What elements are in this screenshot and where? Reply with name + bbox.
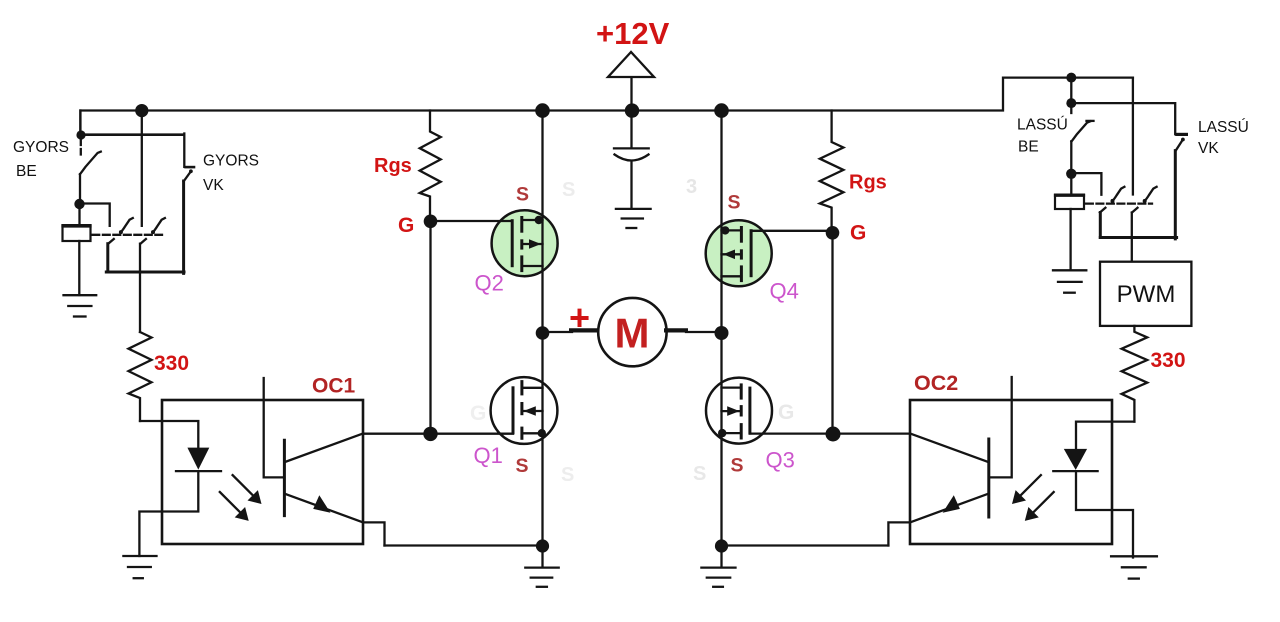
wire Q2 drain/source vertical bbox=[541, 111, 543, 334]
node dot bus/GYORS bbox=[135, 104, 148, 117]
node dot motor right bbox=[715, 326, 729, 340]
svg-text:LASSÚ: LASSÚ bbox=[1017, 117, 1068, 134]
wire Q3 source to OC2 emitter bbox=[722, 544, 889, 546]
svg-text:GYORS: GYORS bbox=[13, 139, 69, 156]
switch LASSU BE bbox=[1071, 107, 1093, 170]
svg-text:G: G bbox=[850, 222, 866, 245]
svg-text:BE: BE bbox=[1018, 139, 1039, 156]
wire Q3 source down bbox=[720, 333, 722, 546]
node dot G left bbox=[424, 215, 438, 229]
+12V supply symbol bbox=[608, 52, 654, 111]
wire contact1 drop right tick bbox=[1100, 208, 1106, 213]
optocoupler OC2 box bbox=[910, 400, 1112, 544]
wire G-right junction down to Q3 gate junction bbox=[831, 233, 833, 434]
resistor 330 right bbox=[1122, 326, 1148, 422]
svg-text:3: 3 bbox=[686, 176, 697, 198]
wire LASSU top to BE dot bbox=[1070, 78, 1072, 100]
wire contact2 drop to 330 resistor bbox=[140, 239, 146, 332]
node dot bus/Q2 drain bbox=[535, 103, 550, 118]
node dot GYORS BE top bbox=[76, 130, 85, 139]
node dot Q1 gate junction bbox=[423, 427, 437, 441]
resistor Rgs left bbox=[420, 111, 441, 222]
svg-text:330: 330 bbox=[1151, 349, 1186, 372]
LED D1 in OC1 bbox=[139, 421, 221, 556]
svg-text:LASSÚ: LASSÚ bbox=[1198, 119, 1249, 136]
svg-text:+: + bbox=[569, 297, 590, 338]
ground below OC1 LED bbox=[123, 556, 156, 578]
MOSFET Q1 (N-channel) bbox=[363, 377, 557, 444]
wire LASSU VK feed horizontal bbox=[1071, 103, 1175, 134]
svg-text:S: S bbox=[728, 192, 741, 214]
svg-text:G: G bbox=[470, 402, 486, 425]
wire contact2 drop to PWM bbox=[1132, 208, 1138, 262]
resistor Rgs right bbox=[820, 111, 844, 228]
node dot bus/capacitor bbox=[625, 103, 639, 117]
svg-text:S: S bbox=[731, 455, 744, 477]
capacitor C1 bbox=[614, 111, 649, 209]
svg-text:PWM: PWM bbox=[1117, 281, 1176, 308]
contact 1 blade right bbox=[1111, 187, 1125, 203]
contact 2 blade bbox=[151, 218, 165, 234]
node dot G right bbox=[826, 226, 840, 240]
svg-text:Q2: Q2 bbox=[475, 271, 504, 296]
wire relay-left contact1 feed bbox=[80, 204, 110, 226]
wire contact2 feed right bbox=[1132, 78, 1134, 195]
wire Q1 source down bbox=[541, 333, 543, 546]
node dot Q3 gate junction bbox=[826, 427, 841, 442]
node dot LASSU top line bbox=[1066, 73, 1076, 83]
relay coil K2 bbox=[1054, 174, 1085, 209]
svg-text:BE: BE bbox=[16, 163, 37, 180]
svg-text:G: G bbox=[778, 401, 794, 424]
wire main +12V bus bbox=[80, 78, 1133, 131]
phototransistor OC2 bbox=[888, 377, 1011, 546]
svg-text:Rgs: Rgs bbox=[374, 155, 412, 177]
motor M bbox=[543, 298, 722, 366]
contact 1 blade (latch) bbox=[119, 218, 133, 234]
svg-text:OC2: OC2 bbox=[914, 371, 958, 395]
wire GYORS VK feed horizontal bbox=[81, 133, 184, 136]
wire relay-right contact1 feed bbox=[1071, 173, 1101, 195]
LED D2 in OC2 bbox=[1053, 422, 1134, 558]
svg-text:G: G bbox=[398, 214, 414, 237]
ground below relay-left bbox=[64, 295, 97, 316]
wire LASSU contact1 drop bbox=[1099, 213, 1102, 238]
wire GYORS BE feed (bus corner down) bbox=[79, 111, 81, 132]
svg-text:S: S bbox=[562, 179, 575, 201]
MOSFET Q4 (P-channel, green, mirrored) bbox=[706, 220, 833, 286]
ground below relay-right bbox=[1053, 270, 1086, 292]
relay-left actuation dashed link bbox=[92, 234, 162, 236]
svg-text:+12V: +12V bbox=[596, 16, 670, 51]
switch GYORS BE bbox=[80, 140, 101, 201]
wire relay-right coil to ground bbox=[1069, 209, 1071, 270]
svg-text:OC1: OC1 bbox=[312, 375, 356, 398]
svg-text:S: S bbox=[693, 463, 706, 485]
PWM block U3 bbox=[1100, 262, 1191, 326]
optocoupler OC1 box bbox=[162, 400, 363, 544]
wire GYORS VK return vertical bbox=[182, 181, 185, 273]
ground below Q1 bbox=[525, 546, 558, 587]
svg-text:M: M bbox=[615, 310, 650, 357]
svg-text:GYORS: GYORS bbox=[203, 153, 259, 170]
switch LASSU VK bbox=[1175, 134, 1188, 150]
MOSFET Q3 (N-channel, mirrored) bbox=[706, 378, 910, 444]
svg-text:330: 330 bbox=[154, 352, 189, 375]
switch GYORS VK bbox=[184, 134, 196, 182]
wire contact1 drop bbox=[108, 239, 114, 272]
svg-text:Rgs: Rgs bbox=[849, 172, 887, 194]
relay coil K1 bbox=[61, 204, 91, 241]
svg-text:S: S bbox=[561, 464, 574, 486]
node dot Q3 source bbox=[715, 539, 728, 552]
node dot relay-left coil top bbox=[74, 199, 84, 209]
svg-text:Q4: Q4 bbox=[770, 279, 799, 304]
svg-text:VK: VK bbox=[1198, 140, 1219, 157]
svg-text:VK: VK bbox=[203, 177, 224, 194]
wire relay-left coil to ground bbox=[78, 241, 80, 295]
MOSFET Q2 (P-channel, green) bbox=[431, 210, 558, 276]
ground below Q3 bbox=[701, 546, 735, 587]
svg-text:Q3: Q3 bbox=[766, 448, 795, 473]
ground below capacitor bbox=[616, 209, 651, 228]
node dot bus/Q4 drain bbox=[714, 103, 729, 118]
wire LASSU latch bottom bbox=[1100, 236, 1176, 239]
contact 2 blade right bbox=[1143, 187, 1157, 203]
wire LASSU VK return vertical bbox=[1174, 151, 1177, 239]
svg-text:S: S bbox=[516, 184, 529, 206]
phototransistor OC1 bbox=[264, 378, 385, 546]
light arrows OC1 bbox=[220, 475, 262, 521]
light arrows OC2 bbox=[1012, 475, 1054, 521]
wire G-left junction down to Q1 gate junction bbox=[429, 221, 431, 433]
wire contact2 feed from bus bbox=[141, 111, 143, 226]
resistor 330 left bbox=[129, 332, 152, 421]
svg-text:Q1: Q1 bbox=[474, 443, 503, 468]
svg-text:S: S bbox=[516, 455, 529, 477]
wire GYORS latch bottom bbox=[106, 271, 184, 274]
ground below OC2 LED bbox=[1111, 556, 1157, 578]
wire Q4 drain/source vertical bbox=[720, 111, 722, 334]
relay-right actuation dashed link bbox=[1086, 202, 1152, 204]
wire OC1 emitter to Q1 source bbox=[385, 544, 543, 546]
node dot LASSU BE top bbox=[1066, 98, 1076, 108]
node dot Q1 source bbox=[536, 539, 549, 552]
node dot motor left bbox=[536, 326, 550, 340]
node dot relay-right coil top bbox=[1066, 169, 1076, 179]
